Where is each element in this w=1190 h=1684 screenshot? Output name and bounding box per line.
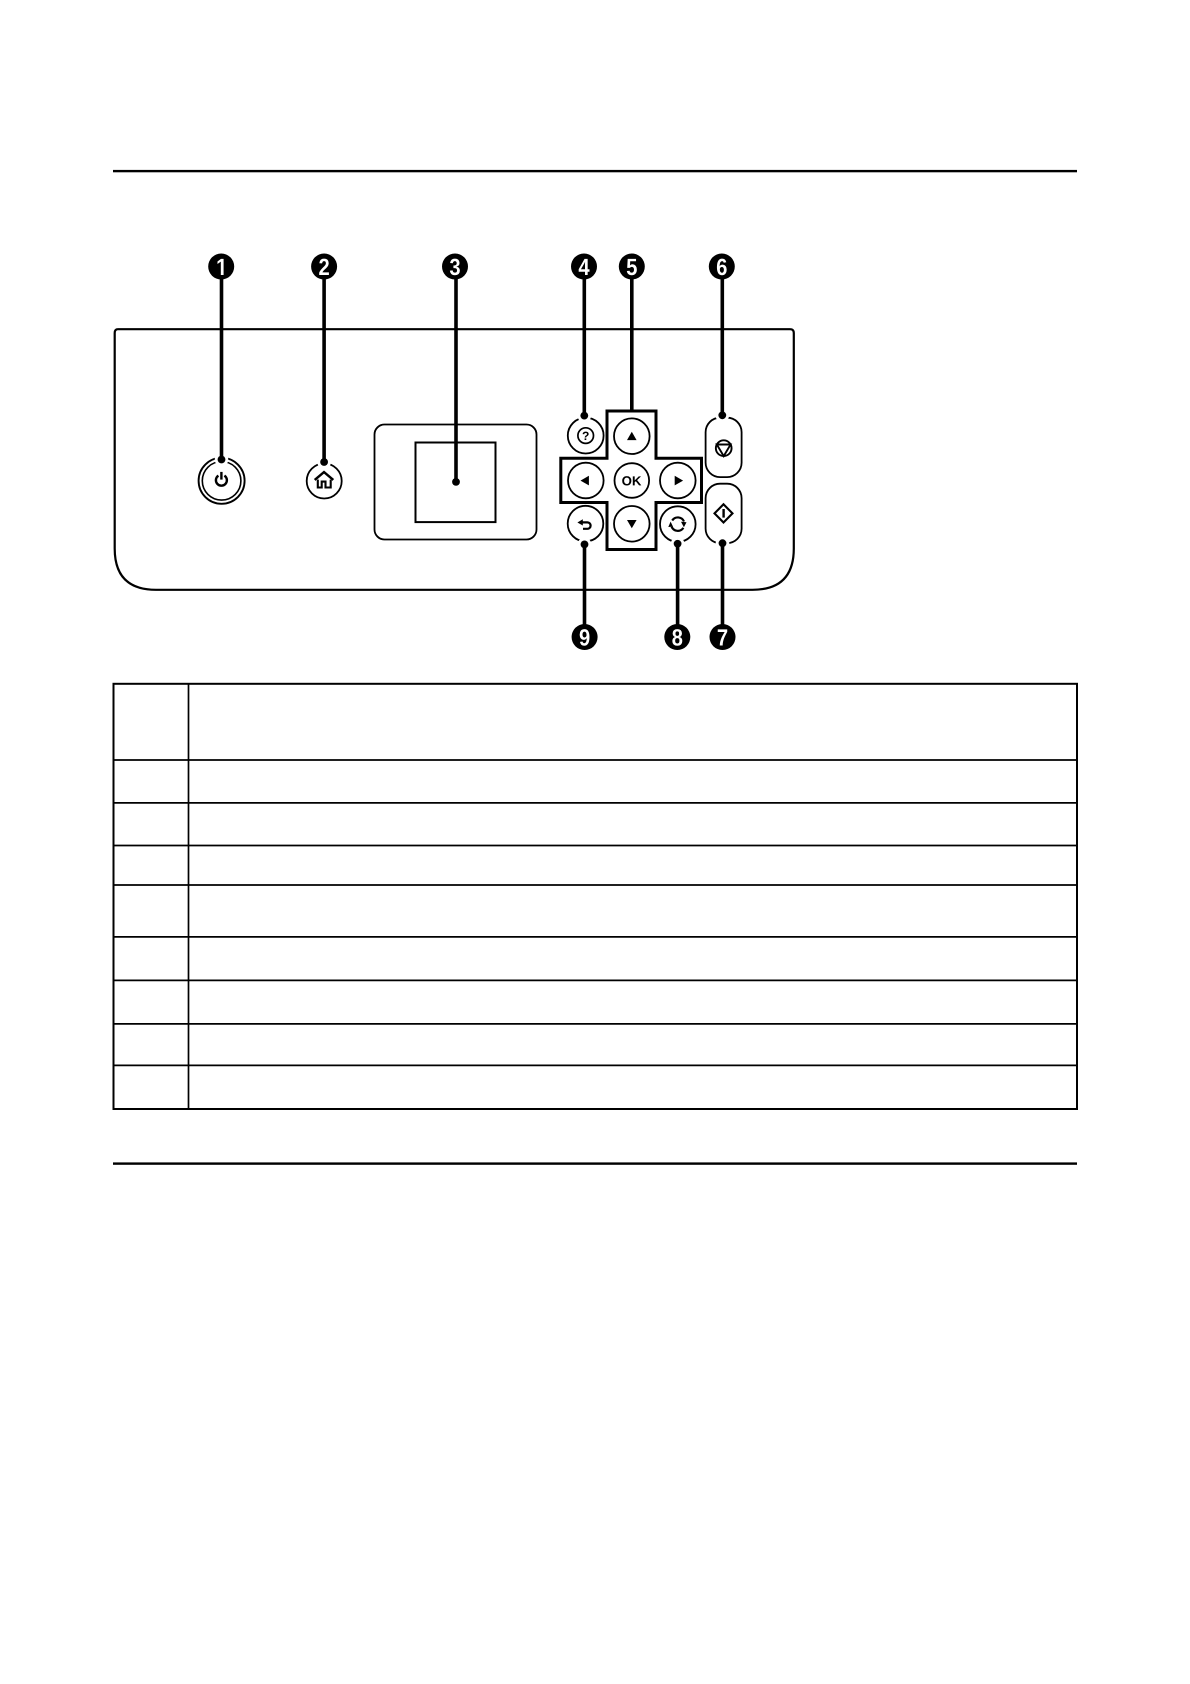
leader line 1 <box>220 267 224 460</box>
leader dot 2 <box>320 458 328 466</box>
leader dot 4 <box>580 412 588 420</box>
top rule <box>113 170 1077 172</box>
power icon arc <box>216 476 227 486</box>
help icon circle <box>578 428 594 444</box>
leader line 8 <box>676 544 680 637</box>
table row line 2 <box>114 802 1078 804</box>
up arrow <box>627 432 637 440</box>
leader 1 halo <box>215 453 229 467</box>
copy button circle <box>660 506 696 542</box>
leader 6 halo <box>716 409 730 423</box>
leader 8 halo <box>671 537 685 551</box>
bottom rule <box>113 1162 1077 1164</box>
leader dot 1 <box>218 456 226 464</box>
table row line 8 <box>114 1064 1078 1066</box>
leader line 7 <box>721 543 725 637</box>
LCD outer bezel <box>375 425 537 540</box>
LCD inner screen <box>416 443 496 523</box>
start icon diamond <box>715 504 733 522</box>
copy icon bottom arc <box>672 527 684 531</box>
power icon bar <box>220 472 222 480</box>
power button P outer ring <box>199 458 245 504</box>
stop icon circle <box>716 440 732 456</box>
callout 1 <box>208 254 234 280</box>
leader line 9 <box>583 544 587 637</box>
leader line 2 <box>322 267 326 463</box>
start icon bar <box>722 509 724 518</box>
leader dot 8 <box>674 540 682 548</box>
callout 6 <box>709 254 735 280</box>
table row line 5 <box>114 936 1078 938</box>
d-pad cross outline <box>561 411 702 550</box>
leader 4 halo <box>578 409 592 423</box>
table row line 4 <box>114 884 1078 886</box>
leader line 3 <box>454 267 458 482</box>
left button circle <box>568 463 604 499</box>
power button inner ring <box>202 462 241 501</box>
table outer border <box>114 684 1078 1109</box>
callout 9 <box>572 624 598 650</box>
home icon roof <box>315 472 334 480</box>
down arrow <box>627 520 637 528</box>
right button circle <box>660 463 696 499</box>
back icon <box>581 522 591 528</box>
leader line 4 <box>582 267 586 416</box>
callout 4 <box>571 254 597 280</box>
home icon body <box>318 480 331 488</box>
start button outline <box>706 484 742 543</box>
home button circle <box>307 464 342 499</box>
callout 3 <box>442 254 468 280</box>
table row line 1 <box>114 759 1078 761</box>
OK button circle <box>615 463 650 498</box>
leader 9 halo <box>578 538 592 552</box>
OK label <box>622 476 641 485</box>
control panel outline <box>115 329 794 590</box>
down button circle <box>614 506 650 542</box>
leader dot 9 <box>581 541 589 549</box>
up button circle <box>614 418 650 454</box>
copy icon bottom arrowhead <box>668 522 673 527</box>
callout 5 <box>619 254 645 280</box>
back icon arrowhead <box>577 519 582 525</box>
help icon question mark <box>583 432 589 440</box>
callout 2 <box>311 254 337 280</box>
copy icon top arrowhead <box>681 522 687 527</box>
callout 7 <box>710 624 736 650</box>
table row line 7 <box>114 1023 1078 1025</box>
help button circle <box>568 418 604 454</box>
left arrow <box>581 476 589 486</box>
leader dot 7 <box>719 539 727 547</box>
copy icon top arc <box>672 517 684 521</box>
table column divider <box>188 684 190 1109</box>
table row line 3 <box>114 845 1078 847</box>
leader line 6 <box>720 267 724 416</box>
leader line 5 (to d-pad top edge) <box>630 267 634 414</box>
stop button outline <box>706 418 742 477</box>
leader dot 3 <box>452 478 460 486</box>
stop icon triangle <box>717 445 731 457</box>
right arrow <box>675 476 683 486</box>
leader 2 halo <box>317 455 331 469</box>
leader 7 halo <box>716 536 730 550</box>
back button circle <box>568 506 604 542</box>
table row line 6 <box>114 979 1078 981</box>
callout 8 <box>664 624 690 650</box>
leader dot 6 <box>718 411 726 419</box>
